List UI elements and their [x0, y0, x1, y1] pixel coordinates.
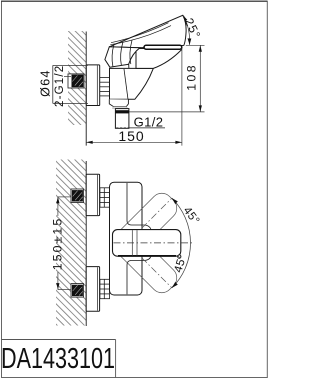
svg-text:150±15: 150±15 — [51, 217, 65, 271]
body (front) — [110, 182, 143, 295]
svg-text:108: 108 — [184, 63, 198, 91]
108 dimension — [186, 44, 205, 46]
dia64 dimension — [53, 64, 88, 66]
150+-15 dimension — [58, 196, 71, 198]
handle cap — [105, 47, 140, 67]
handle screw dot — [178, 255, 181, 258]
svg-text:DA1433101: DA1433101 — [1, 343, 115, 375]
threaded nipple between flange and body — [99, 78, 110, 96]
faucet body (side): lower trapezoid — [110, 68, 154, 99]
body front face inner contour bottom — [127, 256, 151, 294]
wall hatch — [56, 160, 86, 326]
svg-text:Ø64: Ø64 — [39, 69, 53, 97]
150 dimension — [181, 48, 183, 146]
wall flange (escutcheon, side) — [86, 65, 99, 106]
bottom wall flange (front) — [86, 267, 99, 312]
25deg arc — [184, 16, 190, 45]
outlet collar (shaded) — [112, 107, 127, 109]
wall face line — [85, 32, 87, 146]
deck wedge (overhang) — [136, 49, 181, 69]
handle centerline — [114, 242, 195, 244]
blade underside grip bar (double dark line) — [144, 45, 182, 49]
outlet pipe G1/2 — [115, 109, 128, 129]
body front face inner contour top — [127, 183, 151, 230]
wall face line — [85, 161, 87, 326]
wall hatch — [68, 31, 86, 125]
2-G1/2 connection square (black) — [68, 74, 84, 88]
svg-text:G1/2: G1/2 — [134, 114, 164, 129]
top threaded connector — [100, 188, 110, 207]
45 degree arc — [172, 198, 191, 288]
lever blade wedge — [109, 15, 186, 47]
border top darker — [1, 0, 267, 2]
blade slot lines — [111, 23, 169, 43]
top wall flange (front) — [86, 174, 99, 215]
handle (front, horizontal) — [113, 230, 181, 257]
body front-left edge line — [124, 69, 128, 99]
bottom threaded connector — [100, 279, 110, 298]
phantom handle down-45 — [109, 225, 181, 297]
top connection square — [71, 189, 84, 203]
cap facet lines — [112, 44, 114, 66]
svg-text:150: 150 — [118, 128, 144, 144]
svg-text:2-G1/2: 2-G1/2 — [54, 65, 66, 107]
bottom connection square — [71, 284, 84, 298]
body skirt — [109, 99, 128, 106]
phantom handle up-45 — [109, 188, 181, 260]
